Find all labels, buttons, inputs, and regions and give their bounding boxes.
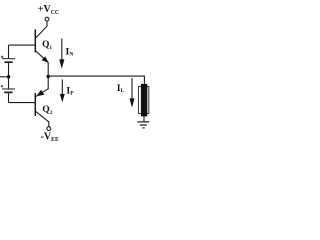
left rail top segment xyxy=(8,45,10,58)
svg-text:IN: IN xyxy=(66,46,74,57)
VCC terminal xyxy=(45,17,49,21)
-VEE label xyxy=(41,132,59,144)
IP arrow xyxy=(61,79,63,95)
battery B1 long plate xyxy=(2,58,15,60)
Q1 emitter arrowhead xyxy=(42,56,49,63)
Q1 emitter xyxy=(35,51,48,63)
Q2 label xyxy=(42,105,52,116)
mid rail node dot xyxy=(7,75,11,79)
battery B2 short plate xyxy=(4,91,12,93)
svg-text:IL: IL xyxy=(117,83,125,94)
IL arrow xyxy=(131,78,133,100)
output node dot xyxy=(46,75,50,79)
transistor Q2 base bar xyxy=(34,93,36,116)
VEE terminal xyxy=(47,127,51,131)
I_P label xyxy=(66,86,74,97)
Q1 base wire xyxy=(9,44,36,46)
left rail bottom segment xyxy=(8,93,10,102)
ground stem xyxy=(143,116,145,121)
Q2 base wire xyxy=(9,102,36,104)
IN arrow xyxy=(61,38,63,60)
svg-text:Q2: Q2 xyxy=(42,105,52,116)
ground xyxy=(137,121,149,123)
left rail mid segment xyxy=(8,63,10,89)
svg-text:IP: IP xyxy=(66,86,74,97)
wire collector Q1 xyxy=(35,21,47,38)
output wire to load xyxy=(48,76,144,84)
svg-text:-VEE: -VEE xyxy=(41,132,59,144)
load resistor RL fill bar xyxy=(141,84,147,117)
Q2 emitter arrowhead (PNP) xyxy=(36,90,44,97)
svg-text:Q1: Q1 xyxy=(42,40,52,51)
battery B2 plus sign xyxy=(1,85,4,88)
load resistor RL box xyxy=(138,87,148,114)
battery B2 long plate xyxy=(2,88,15,90)
wire emitter Q1 to node xyxy=(47,62,49,76)
Q2 collector xyxy=(35,111,48,127)
transistor Q1 base bar xyxy=(34,29,36,52)
Q1 label xyxy=(42,40,52,51)
+VCC label xyxy=(38,4,59,16)
I_N label xyxy=(66,46,74,57)
input stub wire xyxy=(0,76,9,78)
Q2 emitter wire from node xyxy=(35,76,48,96)
battery B1 short plate xyxy=(5,61,13,63)
svg-text:+VCC: +VCC xyxy=(38,4,59,16)
battery B1 plus sign xyxy=(1,56,4,59)
I_L label xyxy=(117,83,125,94)
